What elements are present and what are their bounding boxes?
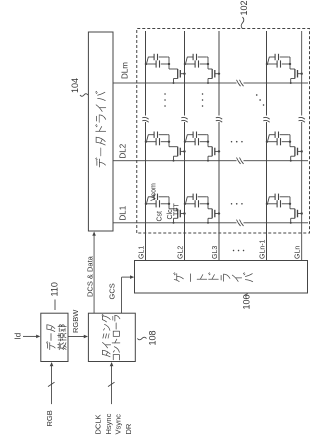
svg-text:Cst: Cst bbox=[157, 211, 164, 222]
svg-text:Id: Id bbox=[14, 333, 23, 340]
svg-text:Hsync: Hsync bbox=[104, 413, 113, 434]
svg-text:DCS & Data: DCS & Data bbox=[86, 255, 95, 297]
svg-text:DL2: DL2 bbox=[119, 143, 128, 158]
svg-text:GL1: GL1 bbox=[138, 246, 145, 259]
svg-text:GL3: GL3 bbox=[212, 246, 219, 259]
svg-text:108: 108 bbox=[148, 330, 158, 345]
svg-text:DL1: DL1 bbox=[119, 205, 128, 220]
svg-text:TFT: TFT bbox=[174, 202, 181, 216]
svg-text:Vsync: Vsync bbox=[114, 414, 123, 435]
svg-text:Vcom: Vcom bbox=[151, 183, 158, 201]
svg-text:DLm: DLm bbox=[121, 62, 130, 79]
svg-text:GLn-1: GLn-1 bbox=[259, 239, 266, 259]
svg-text:RGBW: RGBW bbox=[71, 309, 80, 333]
svg-text:GL2: GL2 bbox=[177, 246, 184, 259]
svg-text:102: 102 bbox=[239, 0, 249, 15]
svg-text:110: 110 bbox=[50, 282, 60, 296]
svg-text:DR: DR bbox=[124, 423, 133, 434]
svg-text:GLn: GLn bbox=[295, 246, 302, 259]
svg-text:RGB: RGB bbox=[45, 410, 54, 426]
svg-text:GCS: GCS bbox=[108, 283, 117, 299]
svg-text:104: 104 bbox=[70, 78, 80, 93]
svg-text:DCLK: DCLK bbox=[94, 414, 103, 434]
svg-text:106: 106 bbox=[242, 294, 252, 309]
